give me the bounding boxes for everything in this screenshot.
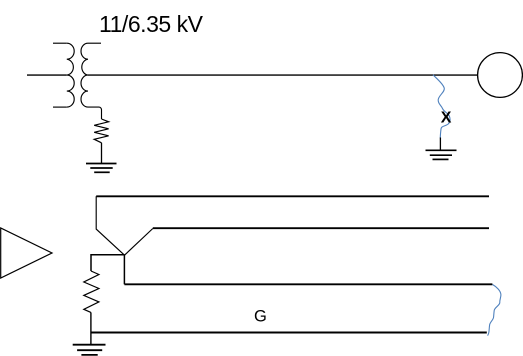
transformer T1 primary winding	[53, 43, 74, 107]
wire: resistor to ground	[101, 143, 103, 164]
wire: phase 1 drop to star point	[96, 196, 124, 255]
triangle (arrow symbol)	[1, 228, 52, 278]
wire: fault to ground stem	[439, 138, 441, 151]
resistor R1 (neutral earthing resistor)	[94, 119, 108, 143]
ground (generator neutral)	[73, 345, 106, 355]
ground (fault point)	[426, 150, 457, 159]
wire: phase 2 drop to star point	[125, 229, 153, 256]
svg-text:G: G	[254, 308, 267, 326]
wire: star point to resistor branch	[91, 255, 124, 271]
svg-text:11/6.35 kV: 11/6.35 kV	[99, 11, 204, 37]
fault path squiggle (blue freeform)	[433, 75, 450, 138]
wire: HV source lead	[27, 74, 67, 76]
wire: resistor R2 to ground	[90, 312, 92, 344]
wire: secondary neutral to resistor	[88, 107, 102, 119]
transformer T1 secondary winding	[81, 43, 101, 107]
svg-text:X: X	[441, 109, 452, 126]
fault path squiggle 2 (blue freeform)	[488, 285, 501, 336]
resistor R2 (generator earthing resistor)	[84, 271, 99, 312]
wire: phase line 1 (top)	[96, 195, 489, 197]
ground (transformer neutral)	[86, 164, 117, 173]
wire: phase line 3	[124, 283, 492, 285]
generator circle	[478, 53, 523, 98]
wire: phase line 4 (neutral/bottom)	[91, 332, 487, 334]
wire: star point drop to phase line 3	[123, 255, 125, 285]
wire: phase line 2	[153, 227, 489, 229]
wire: 6.35 kV feeder	[88, 74, 477, 76]
